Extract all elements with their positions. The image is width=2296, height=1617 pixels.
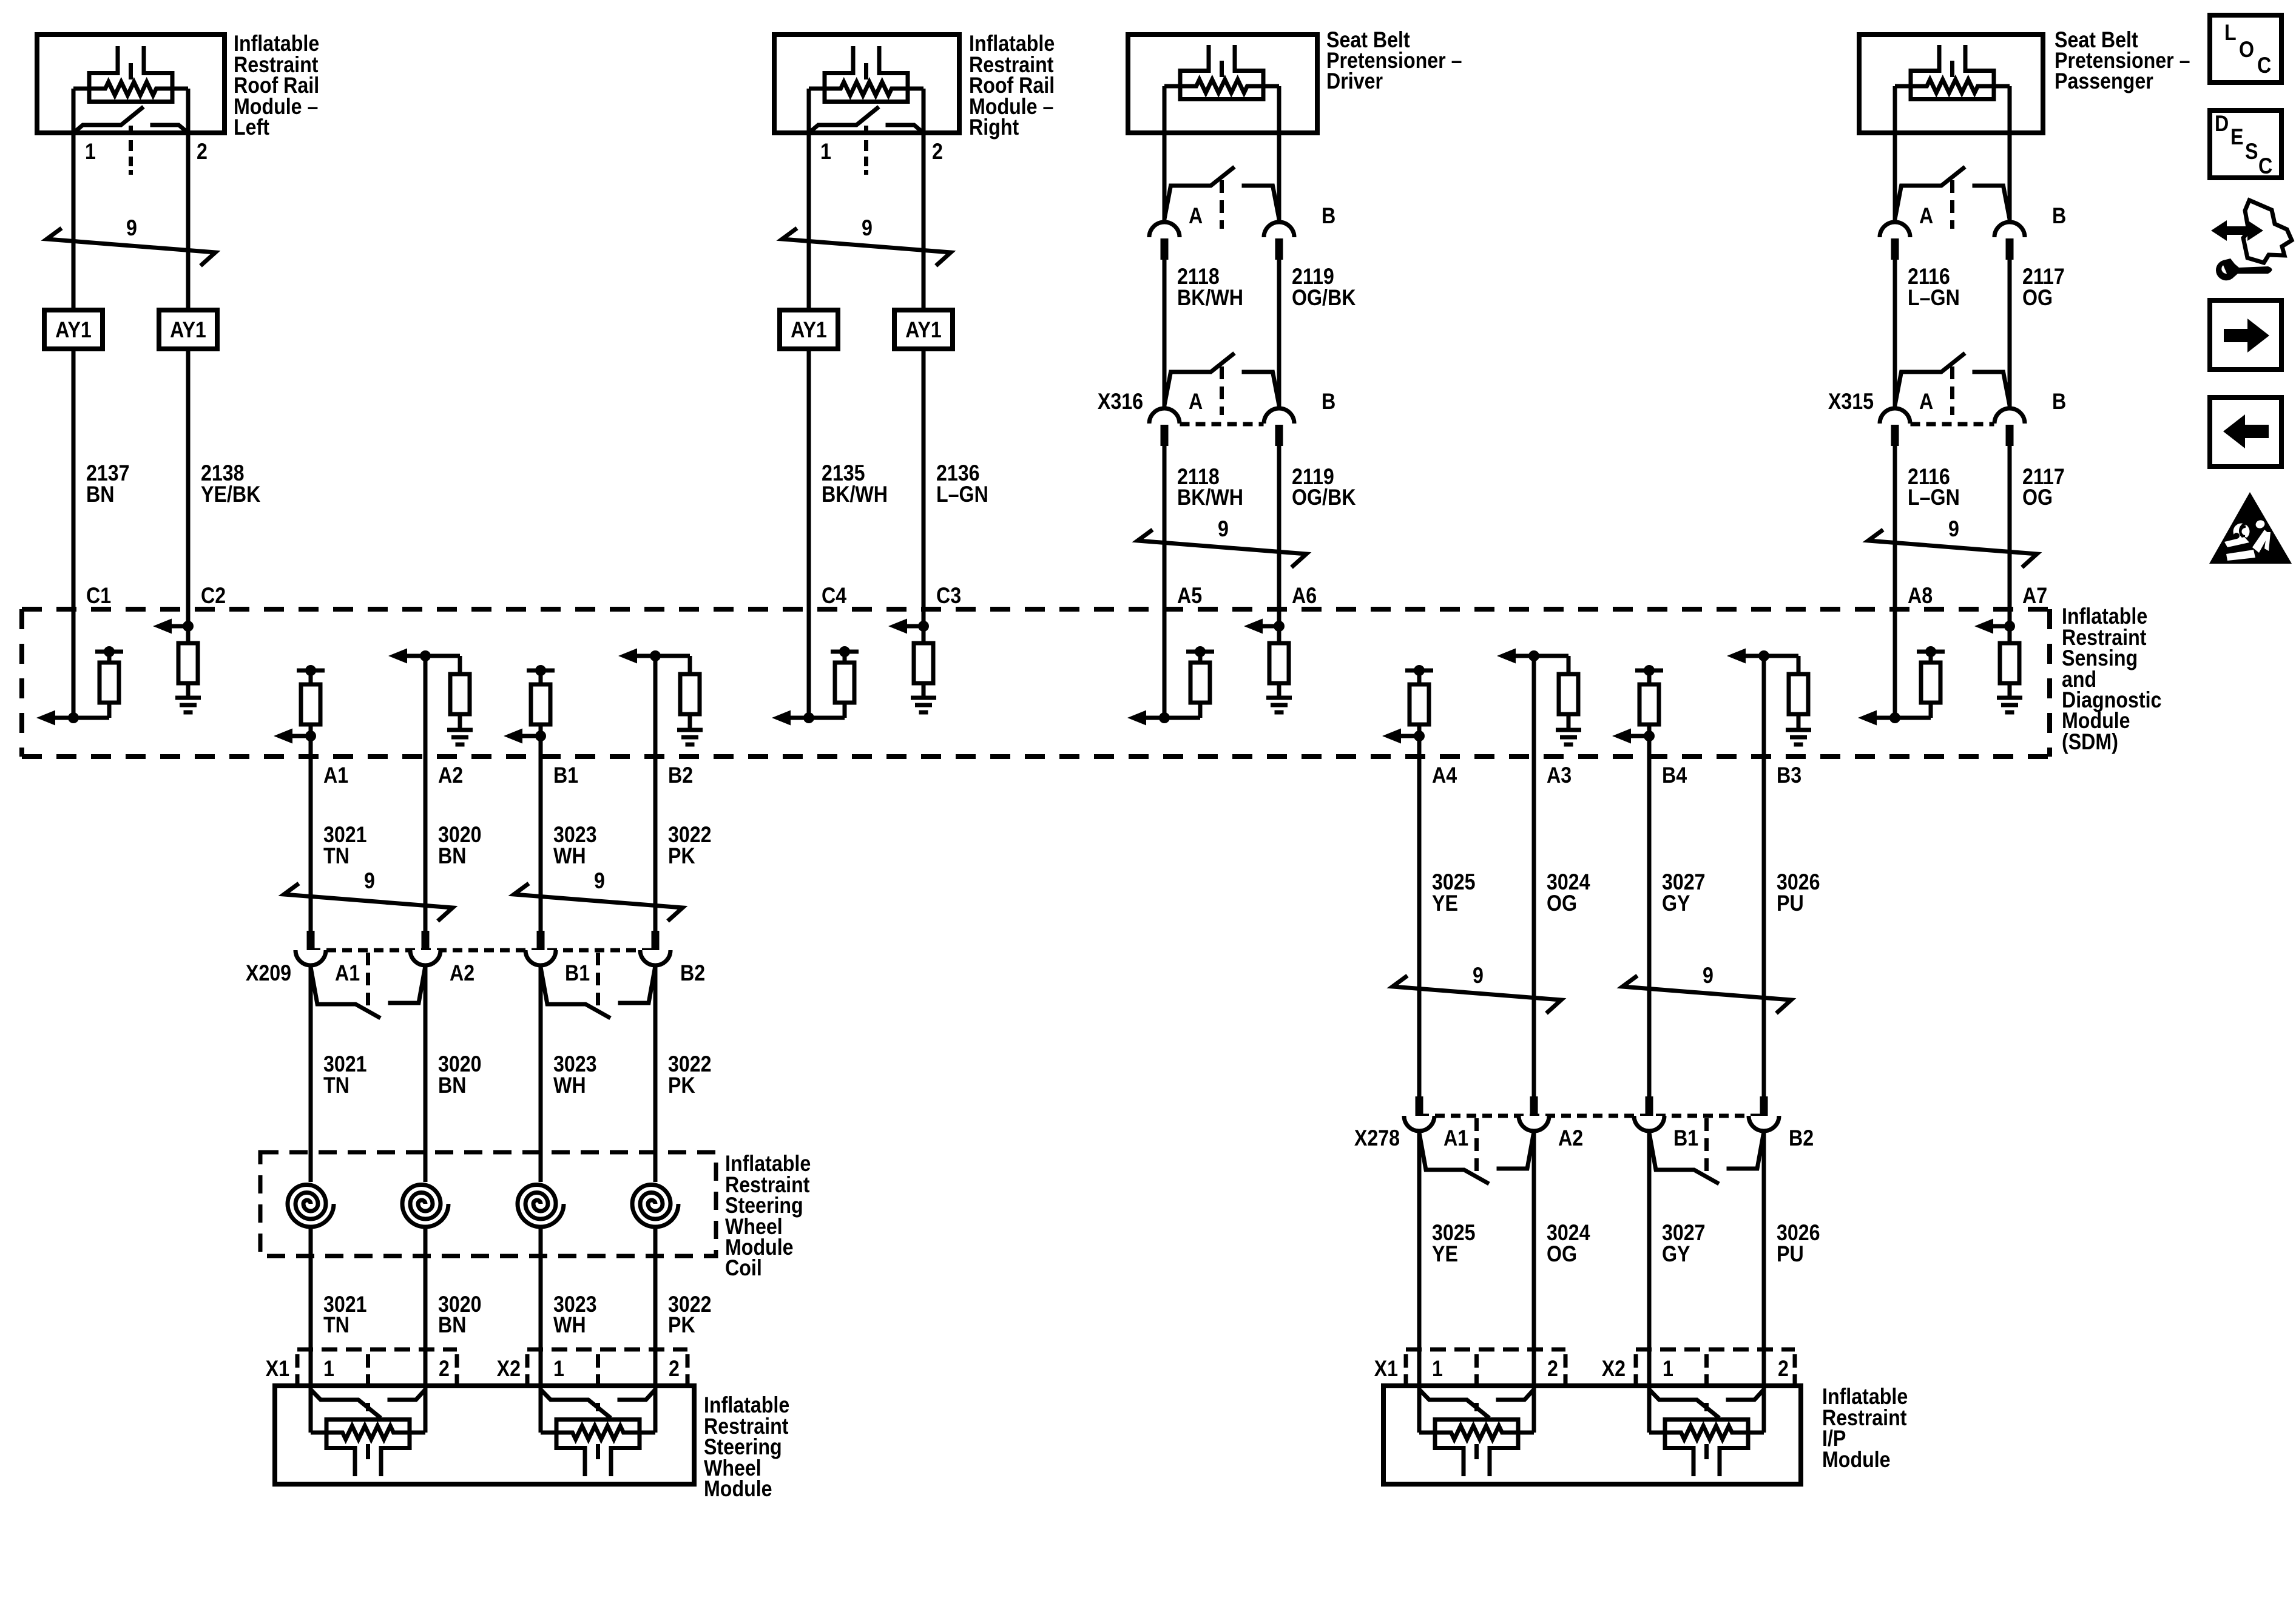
connector at pretensioner driver (terminals A,B) [1149,167,1294,260]
svg-text:TN: TN [323,1073,349,1098]
Inflatable Restraint Sensing and Diagnostic Module (SDM) dashed box [22,609,2050,757]
svg-text:(SDM): (SDM) [2062,730,2118,755]
svg-text:WH: WH [553,1313,586,1338]
svg-text:C: C [2257,53,2271,78]
label: wire 3020 BN [438,823,482,869]
label: Inflatable Restraint Sensing and Diagnostic Module (SDM) [2062,604,2161,755]
svg-text:OG: OG [1547,891,1577,916]
svg-text:X278: X278 [1354,1126,1400,1151]
SDM internal circuit at A5 (arrow, resistor) [1127,646,1214,726]
label: wire 3027 GY [1662,870,1706,916]
SDM internal circuit at A3 (arrow, resistor, ground) [1497,649,1581,745]
svg-text:A2: A2 [438,763,463,788]
svg-text:A2: A2 [1558,1126,1583,1151]
svg-text:PK: PK [668,844,695,869]
svg-text:OG/BK: OG/BK [1292,286,1356,311]
svg-text:O: O [2239,38,2254,62]
label: wire 3024 OG [1547,870,1590,916]
svg-text:PK: PK [668,1313,695,1338]
SDM internal: pin B2 wire [653,656,658,757]
svg-text:A6: A6 [1292,584,1317,609]
svg-text:X1: X1 [266,1357,289,1382]
svg-text:A: A [1189,204,1203,229]
svg-text:L: L [2224,21,2237,46]
svg-text:A4: A4 [1432,763,1457,788]
SDM internal: pin C4 wire [807,609,811,718]
SDM internal circuit at C2 (arrow, resistor, ground) [153,619,201,713]
wire 2116 L-GN mid [1893,260,1897,408]
svg-text:WH: WH [553,844,586,869]
label: wire 3023 WH [553,823,597,869]
label: Inflatable Restraint Roof Rail Module - Left [234,32,319,140]
twisted pair symbol (I/P B4/B3) [1622,976,1791,1013]
svg-text:A2: A2 [450,961,474,986]
svg-text:Left: Left [234,115,269,140]
label: wire 2135 BK/WH [822,461,888,507]
svg-text:B: B [2052,390,2066,414]
svg-text:A5: A5 [1177,584,1202,609]
DESC icon box [2210,110,2281,179]
svg-text:B1: B1 [565,961,590,986]
wire 2116 L-GN lower [1893,446,1897,609]
svg-text:BN: BN [86,482,114,507]
svg-text:9: 9 [126,216,137,241]
svg-text:YE: YE [1432,891,1458,916]
label: wire 3020 BN [438,1052,482,1098]
forward (right arrow) icon box [2210,300,2281,370]
svg-text:Right: Right [969,115,1019,140]
label: wire 3025 YE [1432,1221,1476,1267]
squib igniter (pretensioner passenger) [1895,45,2010,133]
svg-text:2: 2 [1547,1357,1558,1382]
svg-text:X2: X2 [497,1357,521,1382]
svg-text:2: 2 [932,140,943,164]
svg-text:BK/WH: BK/WH [822,482,888,507]
wire 3020 BN seg1 [424,757,428,931]
svg-text:C: C [2258,154,2272,179]
squib igniter (I/P airbag stage 2) [1649,1386,1764,1476]
label: wire 3024 OG [1547,1221,1590,1267]
svg-text:Module: Module [1822,1448,1891,1473]
svg-text:BN: BN [438,1073,466,1098]
svg-text:PU: PU [1777,891,1804,916]
inline connector AY1 [780,310,838,349]
wire 3020 BN seg3 [424,1226,428,1386]
svg-text:A3: A3 [1547,763,1572,788]
SDM internal circuit at A8 (arrow, resistor) [1858,646,1945,726]
SDM internal circuit at A6 (arrow, resistor, ground) [1244,619,1292,713]
svg-text:B: B [1322,390,1335,414]
clockspring coil [518,1185,564,1227]
inline connector AY1 [894,310,953,349]
svg-text:B: B [1322,204,1335,229]
svg-text:A1: A1 [323,763,348,788]
wire 2119 OG/BK lower [1277,446,1281,609]
svg-text:9: 9 [862,216,873,241]
SDM internal circuit at A7 (arrow, resistor, ground) [1974,619,2022,713]
svg-text:1: 1 [1432,1357,1443,1382]
svg-text:OG: OG [1547,1242,1577,1267]
wire 3022 PK seg2 [653,965,658,1182]
svg-text:B1: B1 [553,763,578,788]
svg-text:X2: X2 [1602,1357,1626,1382]
svg-text:Module: Module [704,1477,772,1502]
wire 2117 OG mid [2008,260,2012,408]
twisted pair symbol (steering wheel A1/A2) [284,883,453,921]
module box: Seat Belt Pretensioner - Passenger [1859,35,2043,133]
SDM internal circuit at B3 (arrow, resistor, ground) [1727,649,1811,745]
svg-text:9: 9 [1948,517,1959,542]
svg-text:L–GN: L–GN [1908,485,1960,510]
wire 2136 L-GN upper segment [922,133,926,310]
SDM internal circuit at A1 (resistor, arrow) [274,665,325,757]
svg-text:A8: A8 [1908,584,1933,609]
inline connector X209 pair A1/A2 [295,931,441,1018]
module box: Inflatable Restraint Roof Rail Module - Left [37,35,225,133]
svg-text:Driver: Driver [1326,69,1383,94]
svg-text:9: 9 [594,869,605,894]
label: wire 3022 PK [668,823,712,869]
svg-text:PU: PU [1777,1242,1804,1267]
connector X2 (I/P module) [1636,1349,1795,1387]
inline connector X316 [1149,353,1294,446]
svg-text:Coil: Coil [725,1256,762,1281]
svg-text:C3: C3 [936,584,961,609]
LOC icon box [2210,15,2281,83]
svg-text:2: 2 [439,1357,450,1382]
label: wire 3023 WH [553,1292,597,1338]
svg-text:B4: B4 [1662,763,1687,788]
label: wire 2117 OG [2022,465,2065,510]
svg-text:AY1: AY1 [791,318,827,343]
wire 3026 PU seg2 [1762,1131,1766,1386]
twisted pair symbol (steering wheel B1/B2) [514,883,683,921]
svg-text:B2: B2 [668,763,693,788]
svg-text:E: E [2230,125,2243,150]
label: Inflatable Restraint I/P Module [1822,1385,1908,1473]
SDM internal: pin A8 wire [1893,609,1897,718]
svg-text:X209: X209 [246,961,291,986]
svg-text:B2: B2 [680,961,705,986]
wire 2118 BK/WH (module to connector) [1163,133,1167,222]
svg-text:OG: OG [2022,286,2053,311]
svg-text:L–GN: L–GN [936,482,988,507]
label: Inflatable Restraint Roof Rail Module - Right [969,32,1055,140]
SDM internal circuit at A4 (resistor, arrow) [1382,665,1433,757]
svg-text:B3: B3 [1777,763,1801,788]
svg-text:A1: A1 [1443,1126,1468,1151]
squib igniter (driver airbag stage 1) [311,1386,425,1476]
label: Seat Belt Pretensioner - Passenger [2055,28,2190,94]
svg-text:OG/BK: OG/BK [1292,485,1356,510]
squib igniter (I/P airbag stage 1) [1419,1386,1534,1476]
wire 2119 OG/BK mid [1277,260,1281,408]
wire 2135 BK/WH upper segment [807,133,811,310]
wire 3021 TN seg1 [309,757,313,931]
label: wire 2116 L-GN [1908,465,1960,510]
squib igniter (roof rail left) [73,46,188,175]
wire 3025 YE seg2 [1417,1131,1422,1386]
inline connector X209 pair B1/B2 [525,931,670,1018]
svg-text:AY1: AY1 [55,318,92,343]
back (left arrow) icon box [2210,397,2281,467]
wire 2137 BN upper segment [72,133,76,310]
twisted pair symbol (roof rail right) [782,228,951,266]
label: wire 3023 WH [553,1052,597,1098]
svg-text:2: 2 [197,140,208,164]
svg-text:BK/WH: BK/WH [1177,286,1243,311]
svg-text:AY1: AY1 [170,318,206,343]
SDM internal: pin A6 wire [1277,609,1281,643]
SDM internal circuit at A2 (arrow, resistor, ground) [388,649,473,745]
wire 3025 YE seg1 [1417,757,1422,1096]
svg-text:2: 2 [669,1357,680,1382]
label: wire 3021 TN [323,1292,367,1338]
svg-text:1: 1 [553,1357,564,1382]
svg-text:2: 2 [1778,1357,1789,1382]
svg-text:B2: B2 [1789,1126,1814,1151]
inline connector AY1 [44,310,103,349]
connector X1 (I/P module) [1406,1349,1565,1387]
label: wire 3021 TN [323,823,367,869]
svg-text:1: 1 [323,1357,334,1382]
inline connector X209 dashed mating line [311,948,655,953]
wire 3026 PU seg1 [1762,757,1766,1096]
svg-text:YE: YE [1432,1242,1458,1267]
inline connector X278 pair B1/B2 [1634,1096,1779,1184]
label: wire 3021 TN [323,1052,367,1098]
wire 2118 BK/WH mid [1163,260,1167,408]
SDM internal: pin C3 wire [922,609,926,643]
wire 2117 OG (module to connector) [2008,133,2012,222]
SDM internal: pin C2 wire [186,609,191,643]
wire 2137 BN lower segment [72,349,76,609]
inline connector X278 dashed mating line [1419,1114,1764,1118]
svg-text:A: A [1189,390,1203,414]
wire 2116 L-GN (module to connector) [1893,133,1897,222]
svg-text:C1: C1 [86,584,111,609]
wire 3024 OG seg1 [1532,757,1536,1096]
svg-text:BN: BN [438,844,466,869]
label: wire 3022 PK [668,1292,712,1338]
svg-text:OG: OG [2022,485,2053,510]
svg-text:Passenger: Passenger [2055,69,2153,94]
Inflatable Restraint Steering Wheel Module Coil dashed box [260,1152,716,1256]
wire 3024 OG seg2 [1532,1131,1536,1386]
inline connector X278 pair A1/A2 [1404,1096,1549,1184]
module box: Inflatable Restraint Roof Rail Module - Right [774,35,959,133]
label: wire 2137 BN [86,461,130,507]
squib igniter (pretensioner driver) [1164,45,1279,133]
SDM internal: pin A2 wire [424,656,428,757]
wire 3021 TN seg2 [309,965,313,1182]
connector at pretensioner passenger (terminals A,B) [1880,167,2025,260]
label: wire 2116 L-GN [1908,265,1960,311]
inline connector X315 [1880,353,2025,446]
svg-text:TN: TN [323,1313,349,1338]
SDM internal: pin A5 wire [1163,609,1167,718]
wire 3023 WH seg2 [539,965,543,1182]
label: wire 3027 GY [1662,1221,1706,1267]
SDM internal circuit at B1 (resistor, arrow) [504,665,555,757]
svg-text:X315: X315 [1828,390,1874,414]
svg-text:1: 1 [1663,1357,1673,1382]
SDM internal circuit at C1 (arrow, resistor) [36,646,123,726]
SDM internal circuit at B4 (resistor, arrow) [1612,665,1663,757]
squib igniter (roof rail right) [809,46,923,175]
clockspring coil [632,1185,678,1227]
twisted pair symbol (driver pretensioner) [1138,530,1306,567]
wire 2138 YE/BK upper segment [186,133,191,310]
label: Inflatable Restraint Steering Wheel Module [704,1393,789,1502]
svg-text:1: 1 [820,140,831,164]
svg-text:WH: WH [553,1073,586,1098]
clockspring coil [288,1185,334,1227]
svg-text:GY: GY [1662,1242,1690,1267]
svg-text:PK: PK [668,1073,695,1098]
replace/repair icon (double arrow with wrench) [2211,200,2292,280]
label: wire 3022 PK [668,1052,712,1098]
svg-text:YE/BK: YE/BK [201,482,260,507]
twisted pair symbol (roof rail left) [47,228,215,266]
SDM internal circuit at B2 (arrow, resistor, ground) [618,649,703,745]
label: wire 2118 BK/WH [1177,265,1243,311]
wire 3023 WH seg3 [539,1226,543,1386]
SDM internal circuit at C4 (arrow, resistor) [772,646,859,726]
svg-text:C2: C2 [201,584,226,609]
wire 2135 BK/WH lower segment [807,349,811,609]
SDM internal: pin C1 wire [72,609,76,718]
wire 2117 OG lower [2008,446,2012,609]
label: wire 3020 BN [438,1292,482,1338]
wire 2118 BK/WH lower [1163,446,1167,609]
twisted pair symbol (passenger pretensioner) [1868,530,2037,567]
SDM internal: pin A3 wire [1532,656,1536,757]
squib igniter (driver airbag stage 2) [541,1386,655,1476]
svg-text:1: 1 [85,140,96,164]
connector X1 (steering wheel module) [297,1349,457,1387]
inline connector AY1 [159,310,217,349]
wire 3027 GY seg1 [1647,757,1652,1096]
svg-text:BN: BN [438,1313,466,1338]
svg-text:TN: TN [323,844,349,869]
wire 3021 TN seg3 [309,1226,313,1386]
svg-text:C4: C4 [822,584,847,609]
svg-text:AY1: AY1 [905,318,942,343]
svg-text:9: 9 [1473,964,1484,988]
wire 2119 OG/BK (module to connector) [1277,133,1281,222]
SDM internal: pin B3 wire [1762,656,1766,757]
wire 2138 YE/BK lower segment [186,349,191,609]
svg-text:A7: A7 [2022,584,2047,609]
svg-text:B: B [2052,204,2066,229]
SDM internal: pin A7 wire [2008,609,2012,643]
svg-text:A: A [1919,390,1933,414]
label: wire 2117 OG [2022,265,2065,311]
wire 3023 WH seg1 [539,757,543,931]
svg-text:9: 9 [364,869,375,894]
label: wire 2118 BK/WH [1177,465,1243,510]
svg-text:9: 9 [1703,964,1714,988]
wire 3022 PK seg1 [653,757,658,931]
connector X2 (steering wheel module) [527,1349,687,1387]
clockspring coil [402,1185,448,1227]
label: wire 3025 YE [1432,870,1476,916]
svg-text:GY: GY [1662,891,1690,916]
label: wire 2119 OG/BK [1292,465,1356,510]
svg-text:S: S [2245,140,2258,164]
svg-text:D: D [2215,112,2229,137]
svg-text:X316: X316 [1098,390,1143,414]
label: wire 2136 L-GN [936,461,988,507]
twisted pair symbol (I/P A4/A3) [1393,976,1561,1013]
label: wire 3026 PU [1777,870,1820,916]
module box: Seat Belt Pretensioner - Driver [1128,35,1317,133]
svg-text:B1: B1 [1673,1126,1698,1151]
label: wire 2138 YE/BK [201,461,260,507]
label: wire 3026 PU [1777,1221,1820,1267]
label: Seat Belt Pretensioner - Driver [1326,28,1462,94]
svg-text:A: A [1919,204,1933,229]
SDM internal circuit at C3 (arrow, resistor, ground) [888,619,936,713]
wire 3027 GY seg2 [1647,1131,1652,1386]
airbag warning triangle icon [2209,492,2292,564]
label: wire 2119 OG/BK [1292,265,1356,311]
label: Inflatable Restraint Steering Wheel Module Coil [725,1152,811,1281]
svg-text:BK/WH: BK/WH [1177,485,1243,510]
svg-text:A1: A1 [335,961,360,986]
svg-text:9: 9 [1218,517,1229,542]
svg-text:L–GN: L–GN [1908,286,1960,311]
module box: Inflatable Restraint Steering Wheel Module [275,1386,694,1484]
module box: Inflatable Restraint I/P Module [1383,1386,1801,1484]
wire 3022 PK seg3 [653,1226,658,1386]
svg-text:X1: X1 [1374,1357,1398,1382]
wire 2136 L-GN lower segment [922,349,926,609]
wire 3020 BN seg2 [424,965,428,1182]
